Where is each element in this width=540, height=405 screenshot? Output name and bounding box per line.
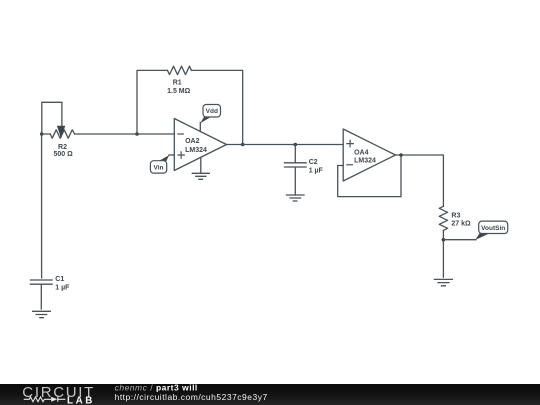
flag Vin box (150, 161, 166, 173)
svg-text:Vdd: Vdd (206, 108, 218, 115)
flag Vdd box (203, 105, 221, 118)
logo LAB text (67, 396, 95, 405)
capacitor C2 (285, 145, 307, 196)
svg-text:chenmc / part3 will: chenmc / part3 will (115, 382, 198, 392)
footer bar (0, 384, 540, 405)
label C1 name (55, 276, 64, 283)
label flag Vin text (154, 164, 164, 171)
node junction VoutSin tap (442, 238, 446, 242)
svg-text:500 Ω: 500 Ω (53, 151, 73, 158)
wire R3 bottom to ground (442, 230, 444, 277)
OA2 ground pin (200, 158, 202, 174)
svg-text:1 µF: 1 µF (309, 168, 324, 175)
label C1 value (55, 285, 70, 292)
svg-text:1 µF: 1 µF (55, 285, 70, 292)
svg-text:Vin: Vin (154, 164, 164, 171)
wire left branch down to C1 (41, 134, 43, 278)
label OA4 model (354, 158, 376, 165)
resistor R1 (168, 66, 192, 74)
label R3 value (451, 221, 471, 228)
svg-text:27 kΩ: 27 kΩ (451, 221, 471, 228)
label R2 value (53, 151, 73, 158)
node junction R1 right on output wire (241, 143, 245, 147)
OA2 non-inverting input mark (178, 152, 184, 158)
wire R1 feedback loop (137, 70, 243, 144)
ground below C2 (287, 195, 305, 201)
footer url (115, 392, 268, 402)
svg-text:R2: R2 (58, 144, 67, 151)
svg-text:R1: R1 (173, 79, 182, 86)
footer credits line (115, 382, 198, 392)
label OA2 name (185, 138, 200, 145)
capacitor C1 (30, 280, 52, 309)
wire VoutSin tap (443, 239, 476, 241)
svg-text:R3: R3 (451, 213, 460, 220)
OA2 + input stub wire from Vin (169, 154, 174, 156)
label R3 name (451, 213, 460, 220)
label C2 value (309, 168, 324, 175)
svg-text:OA2: OA2 (185, 138, 200, 145)
ground below R3 (434, 279, 452, 285)
node junction R1 left on input wire (135, 132, 139, 136)
wire input net from R2 to OA2 inverting input (42, 133, 175, 135)
svg-text:VoutSin: VoutSin (481, 225, 505, 232)
label R1 value (167, 88, 191, 95)
ground below OA2 (192, 173, 209, 179)
op-amp U2 OA4 triangle (343, 129, 395, 181)
svg-text:LM324: LM324 (354, 158, 376, 165)
svg-text:LAB: LAB (67, 396, 95, 405)
svg-text:LM324: LM324 (185, 147, 207, 154)
node junction OA4 output (399, 153, 403, 157)
flag Vdd pointer (200, 117, 211, 123)
node junction C2 top (294, 143, 298, 147)
label flag Vdd text (206, 108, 218, 115)
svg-text:C1: C1 (55, 276, 64, 283)
svg-text:http://circuitlab.com/cuh5237c: http://circuitlab.com/cuh5237c9e3y7 (115, 392, 268, 402)
svg-text:OA4: OA4 (354, 149, 369, 156)
label OA4 name (354, 149, 369, 156)
label R2 name (58, 144, 67, 151)
label flag VoutSin text (481, 225, 505, 232)
node junction at R2 left (40, 132, 44, 136)
R2 wiper arm loop (42, 102, 62, 134)
wire OA4 feedback loop (338, 155, 401, 197)
OA4 non-inverting input mark (347, 140, 353, 146)
wire OA4 output (396, 155, 444, 206)
op-amp U1 OA2 triangle (174, 119, 226, 171)
flag VoutSin box (479, 221, 508, 233)
resistor R3 (439, 206, 447, 230)
logo resistor-diode squiggle (24, 397, 66, 402)
ground below C1 (33, 311, 51, 317)
label R1 name (173, 79, 182, 86)
OA2 inverting input mark (178, 133, 183, 135)
flag VoutSin pointer (475, 233, 489, 240)
logo CIRCUIT text (22, 384, 95, 401)
label OA2 model (185, 147, 207, 154)
svg-text:C2: C2 (309, 159, 318, 166)
OA2 Vdd pin (199, 123, 201, 132)
svg-text:1.5 MΩ: 1.5 MΩ (167, 88, 191, 95)
label C2 name (309, 159, 318, 166)
wire OA2 output to OA4 (227, 144, 344, 146)
OA4 inverting input mark (347, 164, 353, 166)
R2 wiper arrow (57, 126, 65, 139)
resistor R2 (50, 130, 74, 138)
flag Vin pointer (159, 155, 170, 161)
